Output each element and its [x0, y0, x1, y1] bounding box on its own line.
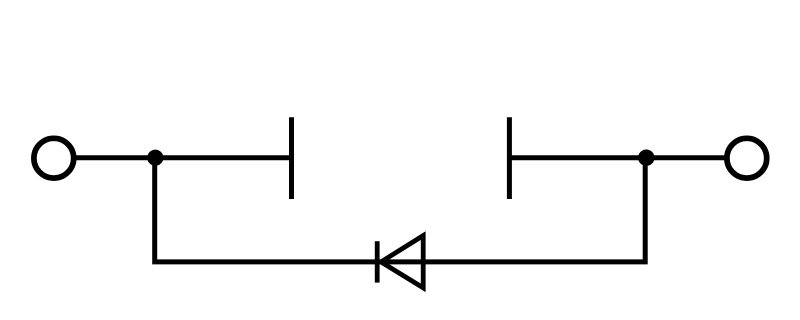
- right terminal circle: [727, 138, 767, 178]
- wire (left circle to left clamp bar): [75, 155, 291, 160]
- left terminal circle: [34, 138, 74, 178]
- wire (right clamp bar to right circle): [509, 155, 725, 160]
- left clamp bar: [289, 117, 294, 199]
- right clamp bar: [507, 117, 512, 199]
- wire (left drop, bottom run, right rise): [155, 158, 646, 262]
- node (left junction dot): [147, 150, 163, 166]
- diode D1 cathode bar: [375, 241, 380, 282]
- diode D1 triangle (anode, pointing left): [381, 236, 423, 288]
- node (right junction dot): [638, 150, 654, 166]
